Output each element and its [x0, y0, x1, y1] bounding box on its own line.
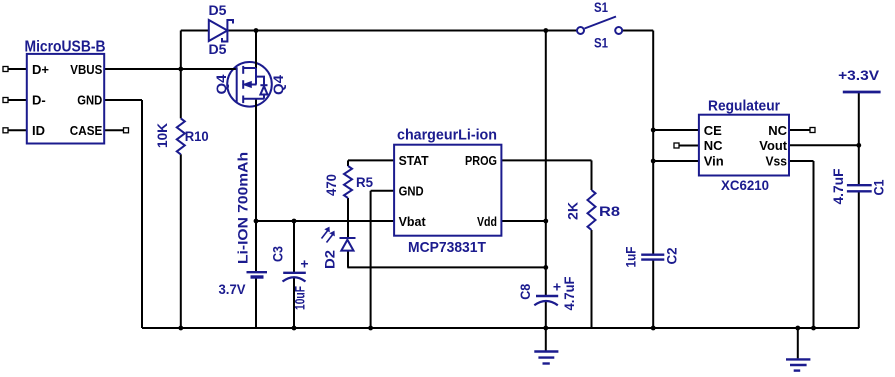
svg-text:R8: R8	[599, 203, 620, 219]
svg-text:3.7V: 3.7V	[219, 281, 247, 297]
svg-text:Q4: Q4	[213, 74, 229, 94]
svg-text:Vout: Vout	[759, 138, 787, 153]
svg-text:CASE: CASE	[70, 123, 103, 138]
svg-text:PROG: PROG	[465, 153, 497, 168]
svg-text:ID: ID	[32, 123, 45, 138]
svg-text:NC: NC	[768, 123, 787, 138]
svg-text:GND: GND	[77, 93, 102, 108]
svg-text:Li-ION 700mAh: Li-ION 700mAh	[235, 152, 251, 264]
svg-text:Q4: Q4	[270, 75, 286, 95]
svg-text:R10: R10	[185, 128, 209, 144]
svg-text:MicroUSB-B: MicroUSB-B	[25, 39, 106, 56]
svg-text:Vdd: Vdd	[477, 214, 497, 229]
svg-text:D2: D2	[322, 250, 338, 269]
svg-text:Vin: Vin	[704, 154, 724, 169]
svg-text:1uF: 1uF	[623, 246, 639, 267]
svg-text:470: 470	[323, 174, 339, 196]
svg-text:Vss: Vss	[766, 154, 788, 169]
svg-text:4.7uF: 4.7uF	[561, 276, 577, 310]
svg-text:+: +	[300, 256, 308, 272]
svg-text:D+: D+	[32, 62, 49, 77]
svg-text:NC: NC	[704, 138, 723, 153]
svg-text:D5: D5	[209, 2, 227, 18]
svg-text:C8: C8	[517, 284, 533, 300]
svg-text:2K: 2K	[565, 202, 581, 220]
svg-text:VBUS: VBUS	[70, 62, 102, 77]
svg-text:CE: CE	[704, 123, 722, 138]
svg-text:S1: S1	[594, 0, 608, 15]
svg-text:4.7uF: 4.7uF	[830, 168, 846, 204]
svg-text:C1: C1	[871, 179, 887, 195]
svg-text:D5: D5	[209, 41, 227, 57]
svg-text:D-: D-	[32, 93, 46, 108]
svg-text:R5: R5	[356, 174, 373, 190]
svg-text:chargeurLi-ion: chargeurLi-ion	[397, 127, 497, 144]
svg-text:10K: 10K	[154, 123, 170, 148]
svg-text:10uF: 10uF	[291, 286, 307, 310]
svg-text:Vbat: Vbat	[399, 214, 427, 229]
svg-text:+3.3V: +3.3V	[838, 67, 880, 83]
svg-text:XC6210: XC6210	[721, 177, 769, 193]
svg-text:GND: GND	[399, 184, 424, 199]
svg-text:+: +	[553, 279, 561, 295]
svg-text:C2: C2	[664, 247, 680, 264]
svg-text:C3: C3	[270, 246, 286, 262]
svg-text:S1: S1	[594, 35, 608, 51]
svg-text:Regulateur: Regulateur	[708, 98, 780, 115]
svg-text:STAT: STAT	[399, 153, 429, 168]
svg-text:MCP73831T: MCP73831T	[408, 239, 486, 256]
